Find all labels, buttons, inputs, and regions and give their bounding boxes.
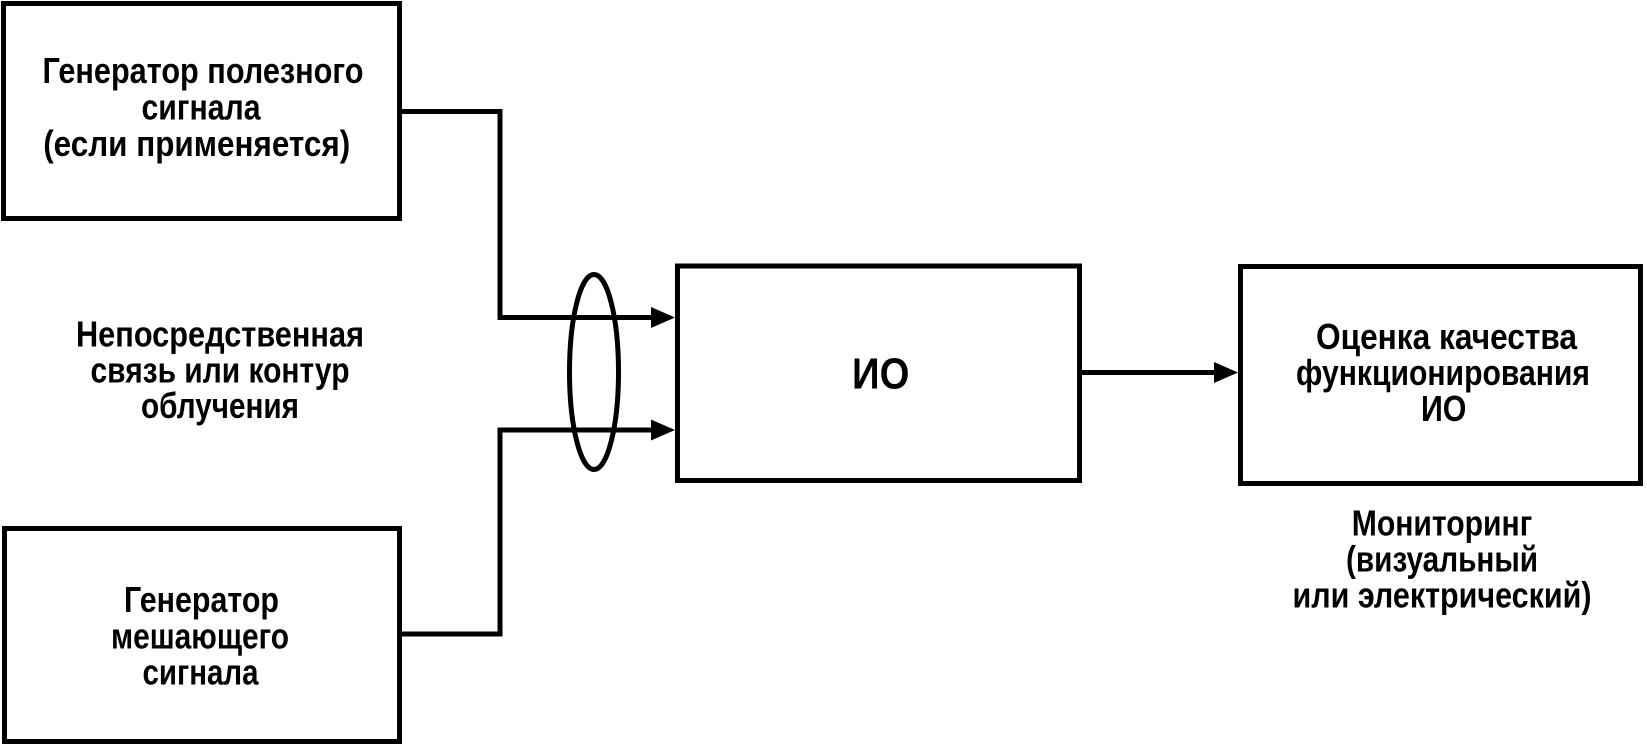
- svg-text:ИО: ИО: [852, 350, 909, 399]
- svg-text:облучения: облучения: [141, 385, 299, 426]
- wire: G2 output, horizontal from box right edge: [400, 632, 503, 637]
- box G1: генератор полезного сигнала: [4, 4, 400, 219]
- box G2: генератор мешающего сигнала: [5, 529, 400, 742]
- svg-text:сигнала: сигнала: [143, 652, 260, 693]
- wire: upper input line into ИО: [498, 315, 654, 320]
- arrowhead: upper input into ИО: [651, 307, 675, 328]
- svg-text:Мониторинг: Мониторинг: [1352, 503, 1533, 544]
- wire: lower input line into ИО: [498, 428, 654, 433]
- wire: ИО output to evaluation box: [1082, 370, 1216, 375]
- svg-text:(если применяется): (если применяется): [43, 123, 350, 164]
- svg-text:мешающего: мешающего: [111, 616, 289, 657]
- wire: vertical drop from G1 wire to upper input line: [498, 109, 503, 320]
- svg-text:Генератор: Генератор: [124, 579, 279, 620]
- wire: vertical rise from G2 wire to lower input line: [498, 428, 503, 637]
- label: Непосредственная связь или контур облучения: [76, 314, 364, 427]
- label G2: Генератор мешающего сигнала: [111, 579, 289, 693]
- svg-text:Оценка качества: Оценка качества: [1316, 316, 1578, 357]
- arrowhead: into evaluation box: [1214, 362, 1238, 383]
- svg-text:(визуальный: (визуальный: [1346, 539, 1538, 580]
- wire: G1 output, horizontal from box right edge: [400, 109, 503, 114]
- label: Мониторинг (визуальный или электрический): [1293, 503, 1592, 616]
- label E1: Оценка качества функционирования ИО: [1296, 316, 1590, 429]
- svg-text:или электрический): или электрический): [1293, 575, 1592, 616]
- svg-text:Генератор полезного: Генератор полезного: [43, 50, 364, 91]
- coupling ellipse: непосредственная связь / контур облучения: [570, 275, 619, 470]
- box U1: ИО (испытуемое оборудование): [678, 266, 1080, 481]
- svg-text:функционирования: функционирования: [1296, 352, 1590, 393]
- arrowhead: lower input into ИО: [651, 420, 675, 441]
- label G1: Генератор полезного сигнала (если применяется): [43, 50, 364, 164]
- svg-text:ИО: ИО: [1421, 388, 1467, 429]
- svg-text:Непосредственная: Непосредственная: [76, 314, 364, 355]
- box E1: оценка качества функционирования ИО: [1241, 267, 1641, 484]
- svg-text:сигнала: сигнала: [142, 87, 262, 128]
